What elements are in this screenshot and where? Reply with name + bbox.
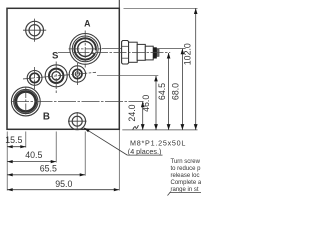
svg-text:68.0: 68.0 <box>171 83 181 100</box>
svg-text:Complete a: Complete a <box>171 180 202 186</box>
svg-text:95.0: 95.0 <box>55 179 72 189</box>
notch in port A ring <box>92 50 96 53</box>
port B horizontal centerline + extension line 24.0 <box>11 101 144 103</box>
leader underline <box>127 154 162 156</box>
curved leader fragment bottom right <box>168 192 172 196</box>
cartridge centerline <box>58 52 170 54</box>
sloped centerline through middle ports <box>23 72 96 79</box>
svg-text:Turn screw c: Turn screw c <box>171 159 202 165</box>
dimension line 68.0 <box>181 49 183 130</box>
right edge extension above block (crop artifact) <box>118 0 120 8</box>
dimension line 102.0 <box>195 8 197 130</box>
cartridge hex nut <box>122 41 129 65</box>
ext line from B center down <box>25 132 27 148</box>
dimension line 64.5 <box>168 53 170 130</box>
svg-text:A: A <box>84 19 91 29</box>
dimension line 15.5 <box>7 146 26 148</box>
cartridge knob <box>145 46 153 60</box>
bottom extension line <box>122 129 197 131</box>
small port right <box>69 63 85 85</box>
note paragraph fragment (cropped) <box>171 159 205 193</box>
svg-text:64.5: 64.5 <box>157 83 167 100</box>
svg-text:S: S <box>52 51 59 62</box>
right extension line below block <box>118 130 120 191</box>
top extension line for 102.0 <box>124 7 198 9</box>
small port left <box>27 67 42 89</box>
svg-text:B: B <box>43 111 50 122</box>
port B <box>11 87 40 117</box>
port S <box>45 62 67 94</box>
extension line 68.0 from port A center <box>102 48 186 50</box>
port A / cartridge horizontal centerline <box>69 48 103 50</box>
port A <box>70 31 101 68</box>
dimension line 24.0 <box>142 102 144 130</box>
knob black band <box>153 47 157 58</box>
ext line from S center down <box>55 132 57 163</box>
break squiggle on bottom extension line <box>133 125 139 129</box>
svg-text:102.0: 102.0 <box>183 43 193 65</box>
svg-text:46.0: 46.0 <box>141 95 151 112</box>
M8 hole top-left <box>23 19 46 42</box>
hex nut flat lines <box>122 45 129 47</box>
svg-text:40.5: 40.5 <box>25 150 42 160</box>
svg-text:15.5: 15.5 <box>5 135 22 145</box>
dimension line 65.5 <box>7 174 85 176</box>
ext line from A center down <box>84 132 86 176</box>
svg-text:24.0: 24.0 <box>127 104 137 121</box>
dimension line 46.0 <box>155 76 157 130</box>
cartridge body <box>129 42 138 62</box>
dimension line 95.0 <box>7 189 119 191</box>
svg-text:65.5: 65.5 <box>40 163 57 173</box>
svg-text:to reduce p: to reduce p <box>171 166 202 172</box>
svg-text:release loc: release loc <box>171 173 200 179</box>
extension line 46.0 from port S center <box>97 75 158 77</box>
svg-text:(4 places.): (4 places.) <box>128 147 162 156</box>
leader arrow for M8 holes <box>84 128 128 155</box>
note underline fragment <box>170 191 202 193</box>
knob nub <box>157 50 159 57</box>
dimension line 40.5 <box>7 161 56 163</box>
cartridge section 3 <box>137 44 145 60</box>
M8 hole bottom-right <box>68 112 87 130</box>
left extension line below block <box>6 132 8 191</box>
block outline <box>7 8 119 129</box>
